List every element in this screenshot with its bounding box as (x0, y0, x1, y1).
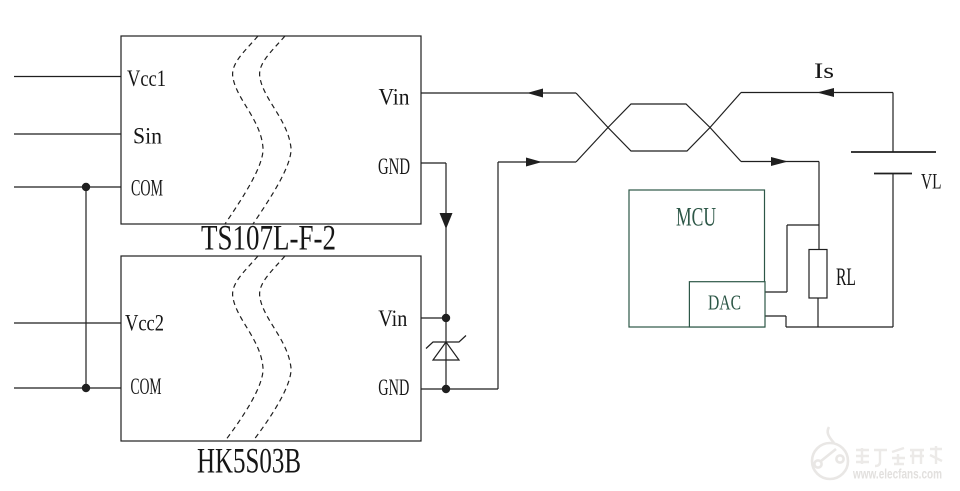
wire zener vertical (445, 318, 447, 389)
arrow down on GND1 wire (440, 213, 453, 229)
wire GND2 horizontal (421, 388, 498, 390)
wire Vcc2 stub (14, 322, 121, 324)
svg-text:RL: RL (836, 264, 856, 291)
MCU block (629, 190, 765, 327)
wire down to RL top (818, 162, 820, 250)
zener diode D1 triangle (433, 342, 459, 360)
svg-text:www.elecfans.com: www.elecfans.com (852, 467, 942, 482)
watermark logo circle (812, 427, 848, 479)
arrow right on lower twisted wire (526, 158, 542, 167)
wire Sin stub (14, 133, 121, 135)
arrow left on Vin1 wire (527, 89, 543, 98)
isolation barrier dashed curve 2 (U2) (253, 256, 291, 441)
svg-text:Sin: Sin (133, 124, 162, 149)
wire DAC lower out right (765, 315, 786, 317)
zener diode D1 cathode bar (426, 336, 466, 349)
wire Vcc1 stub (14, 76, 121, 78)
battery VL bottom plate (874, 173, 912, 175)
wire GND1 vertical down to Vin2 node (445, 163, 447, 318)
svg-text:COM: COM (131, 374, 162, 399)
wire DAC upper joins RL feed (787, 224, 819, 226)
wire Vin1 to twisted pair (421, 92, 576, 94)
svg-text:Vin: Vin (379, 85, 410, 110)
wire lower right from twisted pair (741, 161, 819, 163)
wire slant upper-right of twisted pair (710, 93, 741, 128)
svg-text:Vcc2: Vcc2 (125, 310, 164, 335)
svg-text:GND: GND (378, 154, 410, 179)
wire COM2 stub (14, 387, 121, 389)
wire lower to twisted pair (498, 161, 576, 163)
svg-text:TS107L-F-2: TS107L-F-2 (201, 218, 336, 258)
isolation barrier dashed curve 1 (U2) (225, 256, 263, 441)
watermark CJK text (decorative light strokes) (856, 446, 942, 466)
junction dot COM1 (82, 183, 90, 191)
svg-text:HK5S03B: HK5S03B (197, 441, 301, 481)
twisted pair loop hexagon (608, 104, 710, 151)
arrow right to RL branch (771, 157, 788, 166)
wire DAC upper riser (786, 225, 788, 292)
wire slant upper-left of twisted pair (576, 93, 608, 128)
resistor RL body (809, 250, 827, 299)
svg-text:COM: COM (131, 176, 163, 201)
isolation amplifier U1 TS107L-F-2 box (121, 36, 421, 224)
wire DAC lower drop (785, 316, 787, 327)
wire top right to battery (741, 92, 893, 94)
wire GND2 riser vertical (497, 162, 499, 389)
wire slant lower-right of twisted pair (710, 128, 741, 162)
wire Vin2 stub (421, 317, 446, 319)
wire RL bottom to rail (817, 298, 819, 327)
isolation barrier dashed curve 1 (U1) (225, 36, 263, 224)
isolation amplifier U2 HK5S03B box (121, 256, 421, 441)
svg-text:MCU: MCU (676, 203, 716, 232)
svg-text:GND: GND (378, 375, 409, 400)
wire bottom rail (786, 326, 893, 328)
svg-text:Vin: Vin (378, 306, 407, 331)
wire battery bottom lead (892, 174, 894, 327)
junction dot Vin2 node (442, 314, 450, 322)
svg-text:Is: Is (814, 58, 834, 83)
arrow left Is near battery (817, 88, 834, 97)
isolation barrier dashed curve 2 (U1) (253, 36, 291, 224)
wire COM1 stub (14, 186, 121, 188)
wire slant lower-left of twisted pair (576, 128, 608, 163)
wire COM bus vertical (85, 187, 87, 388)
svg-text:DAC: DAC (708, 290, 741, 314)
battery VL top plate (851, 151, 936, 153)
DAC block (689, 282, 765, 327)
svg-text:VL: VL (921, 168, 942, 193)
junction dot GND2 node (442, 385, 450, 393)
wire DAC upper out right (765, 291, 787, 293)
svg-text:Vcc1: Vcc1 (127, 66, 166, 91)
junction dot COM2 (82, 384, 90, 392)
wire GND1 horizontal (421, 162, 446, 164)
wire battery top lead (892, 93, 894, 152)
